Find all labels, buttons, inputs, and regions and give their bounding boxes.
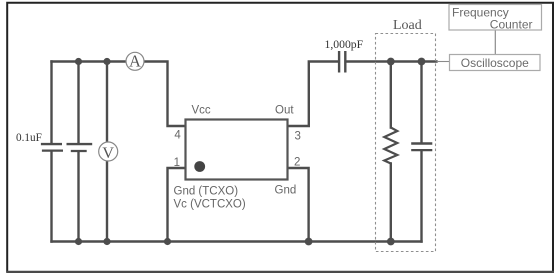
svg-text:Out: Out [275,105,294,117]
svg-text:4: 4 [174,130,181,142]
svg-text:Gnd (TCXO): Gnd (TCXO) [174,185,239,197]
svg-text:V: V [102,145,114,162]
svg-text:2: 2 [294,156,300,168]
svg-text:3: 3 [295,130,301,142]
svg-text:Vc (VCTCXO): Vc (VCTCXO) [174,198,246,210]
svg-text:A: A [129,51,141,70]
svg-text:1,000pF: 1,000pF [325,38,364,51]
svg-text:Load: Load [393,18,422,33]
svg-text:Oscilloscope: Oscilloscope [461,56,529,70]
svg-text:Gnd: Gnd [275,185,297,197]
svg-text:1: 1 [174,157,180,169]
svg-text:0.1uF: 0.1uF [16,132,42,144]
svg-text:Vcc: Vcc [192,104,211,116]
svg-text:Counter: Counter [490,17,533,31]
